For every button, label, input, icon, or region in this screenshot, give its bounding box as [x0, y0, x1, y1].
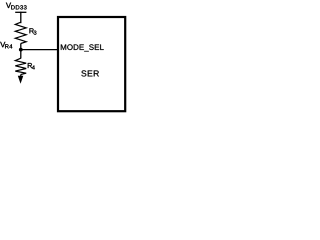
resistor R3: [15, 22, 26, 43]
IC SER box: [58, 17, 125, 111]
label VR4: [0, 42, 12, 49]
wire node to R4: [20, 50, 22, 59]
label R3: [29, 28, 36, 34]
wire R4 to ground: [20, 74, 22, 79]
power rail VDD33 bar symbol: [15, 11, 26, 13]
label R4: [28, 63, 35, 69]
wire R3 to node: [20, 43, 22, 50]
ground (down arrow): [18, 76, 24, 84]
resistor R4: [15, 58, 26, 74]
pin label MODE_SEL: [61, 44, 104, 51]
wire node to MODE_SEL pin: [21, 49, 59, 51]
net label VDD33: [6, 3, 27, 10]
wire rail to R3: [20, 12, 22, 24]
node VR4 junction dot: [19, 48, 23, 52]
label SER: [81, 70, 98, 76]
